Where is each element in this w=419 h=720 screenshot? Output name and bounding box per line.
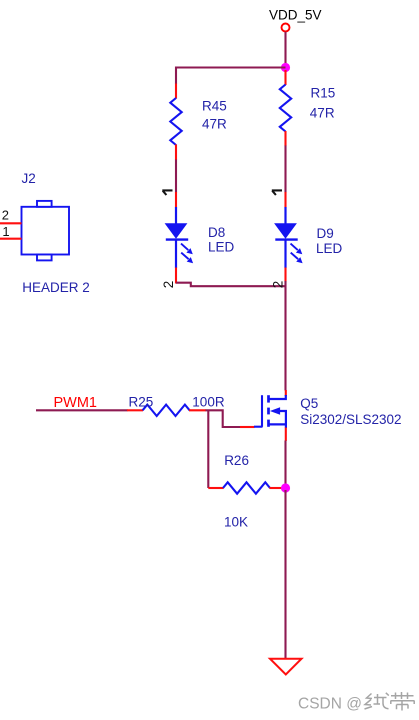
junction R26 source: [281, 483, 290, 492]
pin number 2 of D8: [161, 281, 176, 289]
svg-text:100R: 100R: [192, 395, 225, 410]
label Q5: [300, 396, 318, 411]
label 100R: [192, 395, 225, 410]
wire VDD vertical: [284, 32, 286, 66]
pin stub D9 cathode: [284, 268, 286, 282]
svg-text:LED: LED: [208, 240, 235, 255]
wire R25 to gate: [206, 410, 241, 427]
label D8 LED: [208, 225, 235, 255]
wire PWM1: [36, 409, 128, 411]
label Si2302/SLS2302: [300, 412, 401, 427]
svg-text:LED: LED: [316, 241, 343, 256]
svg-text:2: 2: [161, 281, 176, 289]
wire D8 cathode to net: [176, 283, 286, 287]
label HEADER 2: [22, 280, 90, 295]
label 10K: [224, 515, 248, 530]
pin number 2 of D9: [270, 281, 285, 289]
svg-text:2: 2: [2, 208, 9, 223]
svg-text:Q5: Q5: [300, 396, 318, 411]
power port circle VDD_5V: [282, 24, 290, 32]
wire R45 to D8: [175, 160, 177, 193]
watermark CSDN: [298, 692, 415, 713]
svg-text:2: 2: [270, 281, 285, 289]
svg-text:D8: D8: [208, 225, 225, 240]
junction top: [281, 63, 290, 72]
svg-text:R45: R45: [202, 99, 227, 114]
power net label VDD_5V: [269, 8, 322, 23]
svg-text:1: 1: [2, 224, 9, 239]
svg-text:Si2302/SLS2302: Si2302/SLS2302: [300, 412, 401, 427]
wire source to R26 junction: [284, 441, 286, 487]
wire R15 to D9: [284, 146, 286, 193]
svg-text:R25: R25: [129, 395, 154, 410]
svg-text:R15: R15: [311, 86, 336, 101]
resistor R15: [280, 70, 291, 146]
wire cathodes to MOSFET drain: [284, 281, 286, 391]
LED D9: [274, 207, 303, 268]
pin stub gate: [240, 426, 255, 428]
label D9 LED: [316, 226, 343, 256]
pin number 1 of D9: [272, 190, 282, 195]
label R26: [224, 453, 249, 468]
svg-text:VDD_5V: VDD_5V: [269, 8, 322, 23]
wire top horizontal: [175, 66, 286, 68]
pin stub D9 anode: [284, 192, 286, 208]
net label PWM1: [54, 395, 98, 411]
resistor R45: [170, 84, 181, 161]
transistor Q5: [254, 390, 286, 441]
resistor R25: [127, 405, 206, 416]
label R15 value 47R: [310, 86, 335, 121]
pin 2 of J2: [0, 208, 22, 224]
svg-text:R26: R26: [224, 453, 249, 468]
label R45 value 47R: [202, 99, 227, 132]
label J2: [22, 171, 36, 186]
pin stub D8 anode: [175, 192, 177, 208]
LED D8: [165, 207, 194, 268]
connector J2: [22, 201, 70, 261]
pin 1 of J2: [0, 224, 22, 239]
svg-text:HEADER 2: HEADER 2: [22, 280, 90, 295]
wire R25 to R26 tap: [207, 410, 209, 489]
wire left branch top: [175, 67, 177, 85]
svg-text:PWM1: PWM1: [54, 395, 98, 411]
svg-text:10K: 10K: [224, 515, 248, 530]
resistor R26: [208, 482, 282, 493]
svg-text:47R: 47R: [202, 117, 227, 132]
svg-text:D9: D9: [317, 226, 334, 241]
pin stub D8 cathode: [175, 268, 177, 284]
wire junction to ground: [284, 490, 286, 658]
pin number 1 of D8: [162, 190, 172, 195]
label R25: [129, 395, 154, 410]
svg-text:CSDN @: CSDN @: [298, 695, 362, 712]
ground symbol: [270, 659, 302, 675]
svg-text:J2: J2: [22, 171, 36, 186]
svg-text:47R: 47R: [310, 106, 335, 121]
